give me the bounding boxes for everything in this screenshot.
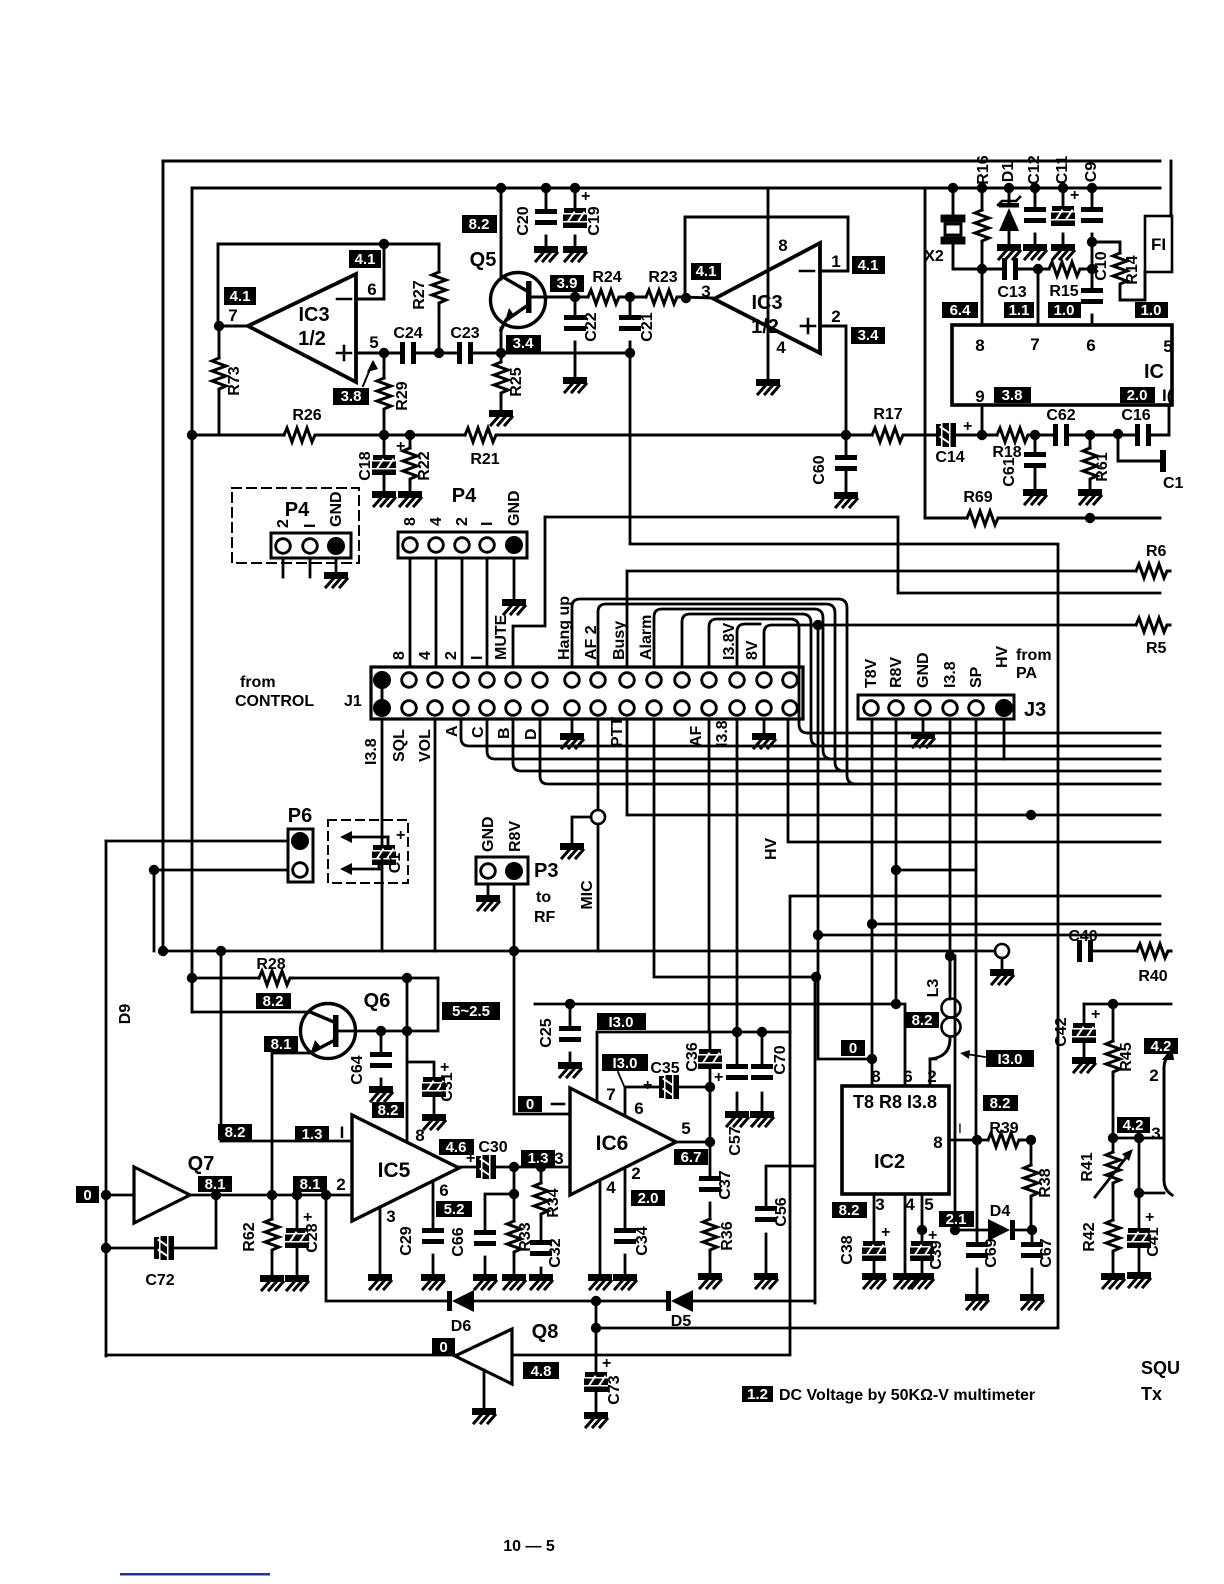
label 4.1 top — [349, 250, 381, 268]
svg-text:IC5: IC5 — [378, 1159, 411, 1182]
wire R27 bottom stem — [438, 306, 441, 353]
resistor R34 zigzag — [534, 1183, 548, 1217]
resistor R73 zigzag — [212, 358, 226, 392]
wire C69 column — [976, 1140, 979, 1242]
node 8.1 bus left — [158, 946, 168, 956]
label 3.9 — [550, 275, 584, 292]
svg-text:8V: 8V — [744, 640, 761, 660]
wire P6 bottom left — [154, 869, 288, 872]
svg-text:C36: C36 — [684, 1042, 701, 1071]
pin J3 HV — [996, 700, 1012, 716]
capacitor C29 — [422, 1228, 444, 1244]
node C20 rail — [541, 183, 551, 193]
node R69 right — [1085, 513, 1095, 523]
transistor Q5 — [491, 273, 546, 331]
ground C41 — [1127, 1272, 1151, 1287]
pin P4-1 — [480, 538, 495, 553]
wire Q8 input — [106, 1354, 455, 1357]
pins J1 bottom row — [402, 701, 417, 716]
wire 13.8 riser — [950, 956, 955, 1230]
wire P4 to J1 stubs — [410, 558, 514, 667]
wire C21 stem — [629, 297, 632, 315]
svg-text:4: 4 — [606, 1178, 616, 1197]
svg-text:R8V: R8V — [507, 821, 524, 852]
wire Q5 base — [533, 296, 588, 299]
wire J3 13.8 down — [949, 719, 952, 991]
wire J1 pin682 tap — [682, 614, 820, 746]
node R28 left — [187, 973, 197, 983]
resistor R41 zigzag variable — [1106, 1152, 1120, 1186]
svg-text:L3: L3 — [925, 979, 942, 998]
svg-text:+: + — [396, 438, 405, 455]
resistor R66 edge zigzag — [1136, 564, 1170, 578]
opamp IC3b plus — [801, 319, 815, 333]
svg-text:4.8: 4.8 — [531, 1363, 552, 1380]
opamp IC3a minus — [337, 298, 351, 301]
svg-text:2: 2 — [831, 307, 840, 326]
wire A fan — [461, 719, 1160, 746]
node D5 left — [591, 1296, 601, 1306]
svg-text:C31: C31 — [439, 1072, 456, 1101]
svg-text:0: 0 — [439, 1339, 447, 1356]
wire IC6 pin7 stub — [596, 1032, 599, 1101]
svg-text:D1: D1 — [1000, 162, 1017, 183]
resistor R24 zigzag — [588, 290, 622, 304]
wire C41 stem — [1138, 1246, 1141, 1271]
wire MIC from J1 — [597, 719, 600, 810]
ground C60 — [834, 492, 858, 507]
node R38 bottom — [1027, 1225, 1037, 1235]
label 1.1 — [1004, 302, 1034, 319]
pin J1 top filled — [374, 672, 390, 688]
op-amp U-IC3a triangle — [248, 274, 356, 382]
svg-text:3: 3 — [1151, 1124, 1160, 1143]
wire J1 filled pins — [381, 680, 384, 708]
capacitor C15 edge — [1160, 450, 1166, 472]
wire IC5 pin6 stub — [432, 1181, 435, 1228]
svg-text:C66: C66 — [450, 1227, 467, 1256]
svg-text:SP: SP — [968, 666, 985, 688]
svg-text:+: + — [1145, 1209, 1154, 1226]
label 13.0 a — [597, 1013, 646, 1031]
svg-text:8.2: 8.2 — [839, 1202, 860, 1219]
label 4.6 — [439, 1139, 474, 1156]
node rail C9 — [1087, 183, 1097, 193]
svg-text:1/2: 1/2 — [298, 328, 326, 350]
svg-text:R41: R41 — [1079, 1152, 1096, 1181]
ground C67 — [1020, 1294, 1044, 1309]
resistor R27 zigzag — [432, 272, 446, 306]
svg-text:Hang up: Hang up — [556, 596, 573, 660]
node P3 R8V bus — [509, 946, 519, 956]
capacitor C61 — [1024, 452, 1046, 468]
capacitor C36 — [698, 1049, 722, 1069]
diode D4 — [988, 1219, 1015, 1241]
svg-text:I3.8V: I3.8V — [721, 622, 738, 660]
pin P4-GND — [506, 537, 522, 553]
capacitor C64 — [370, 1052, 392, 1068]
node rail X2 — [948, 183, 958, 193]
capacitor C35 — [659, 1075, 679, 1099]
ground C28 — [285, 1275, 309, 1290]
node IC2 pin5 — [917, 1225, 927, 1235]
svg-text:SQU: SQU — [1141, 1358, 1180, 1378]
node Q5 collector rail — [496, 183, 506, 193]
wire R61 stem — [1089, 435, 1092, 448]
resistor R29 — [383, 353, 386, 435]
wire IC6 out — [676, 1141, 710, 1144]
capacitor C57 — [726, 1064, 748, 1080]
resistor R18 zigzag — [997, 428, 1031, 442]
node C72 right — [211, 1190, 221, 1200]
label 8.2 L3 — [905, 1012, 939, 1029]
pin P4-4 — [429, 538, 444, 553]
svg-text:2: 2 — [443, 651, 460, 660]
wire MUTE jog — [513, 517, 545, 667]
label 3.4 IC3b — [851, 327, 885, 344]
node C57 — [732, 1027, 742, 1037]
IC2 box — [842, 1086, 949, 1194]
svg-text:C18: C18 — [357, 451, 374, 480]
svg-text:+: + — [396, 827, 405, 844]
wire R24-C21 — [622, 296, 646, 299]
svg-text:+: + — [440, 1059, 449, 1076]
node R22 top — [405, 430, 415, 440]
ground C11 — [1051, 244, 1075, 259]
ground R25 — [489, 410, 513, 425]
ground C18 — [372, 491, 396, 506]
capacitor C31 — [422, 1077, 446, 1097]
wire Q6 collector — [192, 1011, 310, 1014]
svg-text:8: 8 — [871, 1067, 880, 1086]
svg-text:I: I — [340, 1123, 345, 1142]
wire D5 riser — [814, 977, 817, 1303]
label 0 Q7 — [76, 1186, 99, 1204]
ground C39 — [910, 1273, 934, 1288]
node Q5 base — [570, 292, 580, 302]
wire C70 stems — [761, 1032, 764, 1064]
wire IC6 pin4 stub — [599, 1180, 602, 1273]
svg-text:from: from — [1016, 647, 1052, 664]
node R61 top — [1085, 430, 1095, 440]
capacitor C19 — [563, 208, 587, 228]
wire pin5 — [356, 352, 400, 355]
resistor R69 zigzag — [967, 511, 1001, 525]
note 1.2 box — [742, 1386, 773, 1403]
resistor R25 stem — [500, 353, 503, 362]
svg-text:from: from — [240, 674, 276, 691]
svg-text:C70: C70 — [772, 1045, 789, 1074]
capacitor C37 — [699, 1176, 721, 1192]
svg-text:8: 8 — [391, 651, 408, 660]
capacitor C9 — [1081, 207, 1103, 223]
node C21 bottom — [625, 348, 635, 358]
resistor R73 — [218, 326, 221, 358]
svg-text:C13: C13 — [997, 284, 1026, 301]
svg-text:C73: C73 — [606, 1375, 623, 1404]
svg-text:C: C — [470, 726, 487, 738]
label IC6 pin1 dash — [552, 1103, 564, 1106]
op-amp U-IC3b triangle — [714, 243, 820, 353]
wire IC5 out — [459, 1166, 476, 1169]
ground Q8 — [472, 1408, 496, 1423]
wire IC2 pin3 stub — [873, 1194, 876, 1241]
node 977 bus — [811, 972, 821, 982]
svg-text:I3.0: I3.0 — [997, 1051, 1022, 1068]
svg-text:HV: HV — [763, 837, 780, 860]
wire C36 column — [709, 1032, 712, 1049]
label 8.1 IC5 — [293, 1176, 327, 1193]
svg-text:C25: C25 — [538, 1018, 555, 1047]
ground C70 — [750, 1111, 774, 1126]
label 8.1 Q6 — [264, 1036, 298, 1053]
svg-text:R27: R27 — [411, 280, 428, 309]
label 2.1 — [939, 1211, 974, 1228]
node R26 left — [187, 430, 197, 440]
svg-text:4.6: 4.6 — [446, 1139, 467, 1156]
capacitor C20 — [535, 209, 557, 225]
resistor R39 zigzag — [988, 1133, 1022, 1147]
node C9 R14 — [1087, 237, 1097, 247]
wire x790 Q8 loop — [790, 896, 1160, 1353]
node C35 out — [705, 1082, 715, 1092]
svg-text:3.9: 3.9 — [557, 275, 578, 292]
svg-text:3.8: 3.8 — [1002, 387, 1023, 404]
wire R22 stem — [409, 435, 412, 448]
wire IC1 pin8 — [981, 269, 984, 325]
svg-text:MUTE: MUTE — [493, 614, 510, 660]
pin P3 R8V — [506, 863, 522, 879]
svg-text:R26: R26 — [292, 407, 321, 424]
resistor R28 zigzag — [259, 971, 293, 985]
ground C25 — [558, 1062, 582, 1077]
node C13 right — [1033, 264, 1043, 274]
svg-text:8.2: 8.2 — [378, 1102, 399, 1119]
ground R36 — [698, 1273, 722, 1288]
svg-text:8.2: 8.2 — [263, 993, 284, 1010]
wire IC2 pin8 stub — [871, 1059, 874, 1086]
node 8V — [813, 620, 823, 630]
border frame top — [163, 160, 1160, 163]
ground IC5 pin3 — [368, 1274, 392, 1289]
svg-text:IC2: IC2 — [874, 1151, 905, 1173]
wire Q6 emitter — [272, 1053, 310, 1195]
wire IC3b pin1 stub — [820, 217, 848, 271]
capacitor C16 — [1135, 424, 1151, 446]
ground C20 — [534, 246, 558, 261]
svg-text:R61: R61 — [1094, 452, 1111, 481]
label 1.3 IC5 — [295, 1126, 329, 1143]
wire L3 top — [949, 956, 952, 999]
wire R17 to C14 — [906, 434, 936, 437]
capacitor C40 — [1077, 940, 1093, 962]
svg-text:1.2: 1.2 — [747, 1386, 768, 1403]
node R15 right — [1087, 264, 1097, 274]
svg-text:D6: D6 — [451, 1318, 472, 1335]
svg-text:R73: R73 — [226, 366, 243, 395]
svg-text:P4: P4 — [452, 485, 477, 507]
svg-text:C38: C38 — [839, 1235, 856, 1264]
ground IC2 pin4 — [893, 1273, 917, 1288]
wire Busy — [627, 571, 1136, 667]
svg-text:MIC: MIC — [579, 880, 596, 910]
wire HV down — [788, 719, 1160, 842]
svg-text:C23: C23 — [450, 325, 479, 342]
wire 13.0 rail — [597, 1031, 790, 1034]
svg-text:R25: R25 — [508, 367, 525, 396]
wire J3 T8V down — [871, 719, 874, 1059]
wire D6 to D5 — [474, 1300, 666, 1303]
node C41 stub — [1134, 1188, 1144, 1198]
wire Q5 collector — [500, 188, 503, 279]
ground R22 — [398, 491, 422, 506]
capacitor C39 — [910, 1241, 934, 1261]
ground MIC — [560, 843, 584, 858]
wire R14 branch — [1092, 242, 1120, 253]
svg-text:C9: C9 — [1083, 162, 1100, 183]
ground J3 GND — [922, 719, 925, 731]
wire Hang up — [572, 599, 856, 784]
wire C61 stem — [1034, 435, 1037, 452]
ground C32 — [529, 1274, 553, 1289]
node PTT bus — [1026, 810, 1036, 820]
ground C64 — [369, 1086, 393, 1101]
node R29 bottom — [379, 430, 389, 440]
svg-text:R40: R40 — [1138, 968, 1167, 985]
wire pin6 stub — [356, 244, 384, 299]
svg-text:P3: P3 — [534, 860, 558, 882]
C1 arrows — [346, 837, 388, 869]
label 5~2.5 — [442, 1002, 500, 1020]
wire MIC ground stub — [572, 817, 591, 842]
wire rail y1004 — [535, 1004, 905, 1086]
ground C12 — [1023, 244, 1047, 259]
svg-text:R16: R16 — [975, 155, 992, 184]
wire D fan — [540, 719, 1160, 784]
svg-text:5: 5 — [924, 1195, 933, 1214]
capacitor C67 — [1021, 1242, 1043, 1258]
svg-text:6.4: 6.4 — [950, 302, 972, 319]
wire R45 stems — [1112, 1004, 1115, 1041]
capacitor C14 — [936, 423, 956, 447]
svg-text:I: I — [469, 656, 486, 660]
svg-text:C11: C11 — [1054, 156, 1071, 185]
svg-text:8.1: 8.1 — [300, 1176, 321, 1193]
svg-text:Alarm: Alarm — [638, 615, 655, 660]
node IC3b pin2 R17 — [841, 430, 851, 440]
wire x154 down — [153, 870, 156, 951]
svg-text:3.4: 3.4 — [858, 327, 880, 344]
svg-text:Q6: Q6 — [364, 990, 391, 1012]
ground R61 — [1078, 489, 1102, 504]
node 935 bus — [813, 930, 823, 940]
svg-text:+: + — [643, 1077, 652, 1094]
svg-text:C62: C62 — [1046, 407, 1075, 424]
wire C13 row — [982, 268, 1002, 271]
ground C61 — [1023, 489, 1047, 504]
svg-text:0: 0 — [849, 1040, 857, 1057]
wire C67 stems — [1031, 1230, 1034, 1242]
svg-text:1: 1 — [831, 252, 840, 271]
capacitor C69 — [966, 1242, 988, 1258]
svg-text:5: 5 — [681, 1119, 690, 1138]
pin P6 bottom — [293, 863, 308, 878]
connector P3 — [476, 857, 528, 884]
op-amp IC5 triangle — [352, 1115, 459, 1221]
capacitor C70 — [751, 1064, 773, 1080]
node rail-R8V — [891, 999, 901, 1009]
wire C10 bottom to pin6 — [1091, 315, 1094, 325]
svg-text:CONTROL: CONTROL — [235, 693, 314, 710]
node R45 top — [1108, 999, 1118, 1009]
wire R69 right — [1001, 517, 1160, 520]
node rail D1 — [1004, 183, 1014, 193]
svg-text:C21: C21 — [639, 312, 656, 341]
label 4.2 pin3 — [1117, 1117, 1150, 1134]
node T8V branch — [867, 919, 877, 929]
resistor R55 edge zigzag — [1136, 618, 1170, 632]
svg-text:R33: R33 — [517, 1222, 534, 1251]
svg-text:R45: R45 — [1118, 1042, 1135, 1071]
svg-text:0: 0 — [83, 1187, 91, 1204]
svg-text:6: 6 — [439, 1181, 448, 1200]
svg-text:R69: R69 — [963, 489, 992, 506]
wire Q8 ground stub — [483, 1370, 486, 1407]
label 4.1 IC3b left — [691, 263, 721, 280]
wire C32 stem — [540, 1268, 543, 1273]
resistor R16 zigzag — [975, 210, 989, 244]
node feedback — [379, 239, 389, 249]
label 4.1 left — [224, 287, 256, 305]
capacitor C66 — [474, 1230, 496, 1246]
svg-text:PTT: PTT — [609, 717, 626, 747]
ground C31 — [422, 1114, 446, 1129]
svg-text:C64: C64 — [349, 1055, 366, 1084]
pin P4a-2 — [276, 539, 291, 554]
svg-text:I3.8: I3.8 — [942, 661, 959, 688]
wire C66 branch — [485, 1194, 514, 1230]
svg-text:+: + — [714, 1069, 723, 1086]
wire IC6 pin6 C35 — [625, 1087, 659, 1116]
node IC3b pin3 — [681, 293, 691, 303]
node rail C11 — [1058, 183, 1068, 193]
svg-text:R28: R28 — [256, 956, 285, 973]
svg-text:C57: C57 — [727, 1126, 744, 1155]
node Q6 base pin8 — [402, 1026, 412, 1036]
ground C38 — [862, 1273, 886, 1288]
svg-text:C39: C39 — [928, 1240, 945, 1269]
svg-text:C12: C12 — [1026, 155, 1043, 184]
pin P4-8 — [403, 538, 418, 553]
svg-text:Busy: Busy — [611, 621, 628, 660]
wire C23 to Q5 emitter node — [473, 352, 630, 355]
node D6 top — [321, 1190, 331, 1200]
svg-text:C20: C20 — [515, 206, 532, 235]
wire IC6 pin2 stub — [624, 1168, 627, 1228]
ground P4a — [324, 572, 348, 587]
svg-text:2: 2 — [927, 1067, 936, 1086]
capacitor C28 — [285, 1228, 309, 1248]
resistor R14 zigzag — [1113, 253, 1127, 287]
ground R42 — [1101, 1273, 1125, 1288]
wire pin8 riser x407 — [406, 978, 409, 1142]
svg-text:R21: R21 — [470, 451, 499, 468]
svg-text:T8V: T8V — [863, 658, 880, 688]
ground C29 — [421, 1274, 445, 1289]
resistor R42 zigzag — [1106, 1220, 1120, 1254]
svg-text:PA: PA — [1016, 665, 1037, 682]
node P6 wire — [149, 865, 159, 875]
